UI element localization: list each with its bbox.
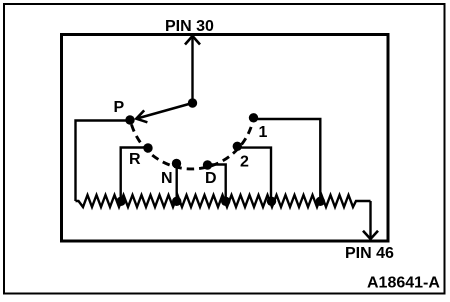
arrowhead to PIN 46 — [363, 231, 378, 239]
svg-text:PIN 46: PIN 46 — [345, 245, 394, 262]
wire PIN30 riser — [191, 37, 193, 104]
contact N — [172, 159, 181, 168]
svg-text:P: P — [114, 99, 125, 116]
node wiper pivot — [188, 98, 197, 107]
svg-text:R: R — [129, 151, 141, 168]
wiper arm — [138, 103, 193, 118]
wire to PIN 46 — [369, 201, 371, 238]
wire P to resistor — [76, 121, 131, 202]
svg-text:A18641-A: A18641-A — [367, 275, 440, 292]
svg-text:PIN 30: PIN 30 — [165, 18, 214, 35]
TR sensor case box — [62, 35, 389, 242]
wire N to resistor — [175, 164, 177, 202]
contact 1 — [249, 113, 258, 122]
svg-text:N: N — [161, 170, 173, 187]
resistor chain — [76, 195, 371, 207]
svg-text:D: D — [205, 170, 217, 187]
arrowhead to PIN 30 — [185, 36, 200, 45]
wire D to resistor — [208, 165, 226, 202]
dashed contact arc — [132, 123, 253, 169]
junction R tap — [116, 197, 125, 206]
svg-text:2: 2 — [240, 154, 249, 171]
junction D tap — [221, 197, 230, 206]
wire 1 to resistor — [254, 119, 321, 201]
wire 2 to resistor — [237, 148, 271, 201]
contact R — [143, 143, 152, 152]
arrowhead wiper — [136, 110, 147, 122]
wire R to resistor — [121, 148, 148, 202]
junction 1 tap — [316, 197, 325, 206]
junction N tap — [172, 197, 181, 206]
contact 2 — [233, 142, 242, 151]
svg-text:1: 1 — [259, 124, 268, 141]
contact P — [125, 115, 134, 124]
junction 2 tap — [267, 197, 276, 206]
contact D — [203, 160, 212, 169]
